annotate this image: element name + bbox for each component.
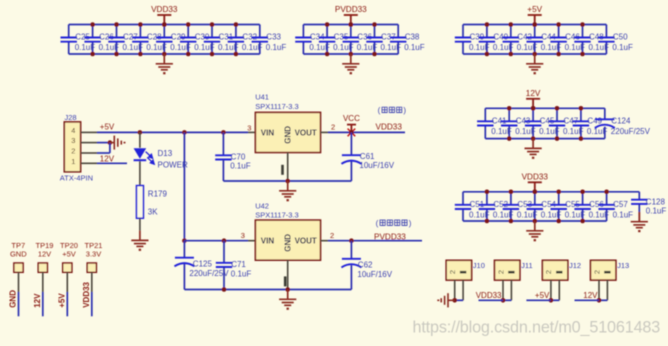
capacitor C28 0.1uF bbox=[139, 25, 141, 38]
junction dots at C42 bbox=[509, 22, 514, 27]
VDD33 bypass bank top rail wire bbox=[69, 24, 260, 26]
svg-text:U41: U41 bbox=[255, 93, 269, 102]
junction dot at C57/top-right corner bbox=[604, 190, 609, 195]
svg-text:0.1uF: 0.1uF bbox=[612, 43, 633, 52]
no-ERC cross at VCC node bbox=[348, 129, 356, 137]
svg-text:+5V: +5V bbox=[535, 291, 550, 300]
svg-text:2: 2 bbox=[544, 270, 553, 274]
svg-text:220uF/25V: 220uF/25V bbox=[611, 127, 651, 136]
U41 VIN pin lead bbox=[248, 131, 255, 133]
12V bypass bank bottom rail wire bbox=[485, 138, 605, 140]
svg-text:C33: C33 bbox=[266, 33, 281, 42]
op-amp U41 body (SPX1117-3.3) bbox=[255, 112, 320, 152]
ground for +5V bypass bank bbox=[526, 54, 543, 73]
svg-text:C38: C38 bbox=[405, 33, 420, 42]
test point TP7 lead bbox=[18, 272, 20, 292]
capacitor C44 0.1uF bbox=[534, 25, 536, 38]
earth ground at J28 (sideways) bbox=[110, 136, 125, 150]
capacitor C124 220uF/25V bbox=[604, 108, 606, 119]
test point TP20 pad bbox=[63, 263, 72, 272]
svg-text:TP21: TP21 bbox=[85, 241, 103, 250]
capacitor C50 0.1uF bbox=[605, 25, 607, 38]
svg-text:4: 4 bbox=[71, 126, 75, 135]
capacitor C33 0.1uF bbox=[259, 25, 261, 38]
svg-text:C124: C124 bbox=[611, 116, 631, 125]
capacitor C25 0.1uF bbox=[68, 25, 70, 38]
junction dots at C27 bbox=[114, 22, 119, 27]
PVDD33 bypass bank bottom rail wire bbox=[303, 53, 398, 55]
wire to net label 12V bbox=[575, 299, 600, 301]
svg-text:VDD33: VDD33 bbox=[522, 173, 549, 182]
U42 GND pin lead bbox=[287, 260, 289, 289]
svg-text:0.1uF: 0.1uF bbox=[266, 43, 287, 52]
svg-text:VDD33: VDD33 bbox=[82, 281, 91, 307]
svg-text:0.1uF: 0.1uF bbox=[404, 43, 425, 52]
J10 pin leads bbox=[454, 280, 456, 300]
svg-text:3: 3 bbox=[71, 136, 75, 145]
capacitor C125 220uF/25V (polarized) bbox=[183, 241, 185, 258]
capacitor C32 0.1uF bbox=[235, 25, 237, 38]
junction dots at C45 bbox=[531, 106, 536, 111]
junction dots at C56 bbox=[580, 190, 585, 195]
J13 pin join wire bbox=[599, 299, 607, 301]
J13 pin 1 number bbox=[604, 271, 610, 274]
J28 pin 3 lead bbox=[81, 142, 97, 144]
capacitor C56 0.1uF bbox=[582, 192, 584, 205]
junction dot J11 bbox=[501, 298, 506, 303]
U41 pin 2 lead bbox=[321, 131, 329, 133]
capacitor C128 0.1uF bbox=[638, 192, 640, 200]
junction dot D13 branch bbox=[138, 130, 143, 135]
capacitor C48 0.1uF bbox=[582, 25, 584, 38]
wire VOUT to PVDD33 bbox=[328, 240, 422, 242]
wire from TP19 bbox=[42, 292, 44, 316]
wire to net label VDD33 bbox=[479, 299, 504, 301]
svg-text:+5V: +5V bbox=[57, 293, 66, 308]
junction dots at C35 bbox=[325, 22, 330, 27]
junction dots at C55 bbox=[556, 190, 561, 195]
svg-text:GND: GND bbox=[284, 126, 293, 144]
svg-text:10uF/16V: 10uF/16V bbox=[359, 161, 394, 170]
junction dot VDD33 stem on VDD33 lower bypass bank top rail bbox=[533, 190, 538, 195]
J12 pin leads bbox=[550, 280, 552, 300]
capacitor C29 0.1uF bbox=[163, 25, 165, 38]
svg-text:3: 3 bbox=[247, 124, 251, 133]
capacitor C62 10uF/16V (polarized) bbox=[350, 241, 352, 259]
J28 pin 4 lead bbox=[81, 131, 97, 133]
junction dot C62 bbox=[349, 238, 354, 243]
VDD33 lower bypass bank bottom rail wire bbox=[463, 220, 607, 222]
svg-text:12V: 12V bbox=[38, 250, 51, 259]
ground below U41 bbox=[279, 181, 296, 200]
U42 VIN pin lead bbox=[248, 240, 255, 242]
ground for PVDD33 bypass bank bbox=[342, 54, 359, 73]
feed wire +5V down to U42 row bbox=[183, 132, 185, 240]
jumper J12 body bbox=[542, 260, 567, 280]
svg-text:GND: GND bbox=[10, 250, 27, 259]
earth ground at J10 (sideways) bbox=[438, 293, 454, 307]
svg-text:J13: J13 bbox=[617, 261, 629, 270]
junction dots at C28 bbox=[138, 22, 143, 27]
svg-text:VIN: VIN bbox=[261, 237, 275, 246]
capacitor C54 0.1uF bbox=[534, 192, 536, 205]
junction dot J13 bbox=[597, 298, 602, 303]
svg-text:+5V: +5V bbox=[62, 250, 76, 259]
junction dot U42 VIN rail bbox=[182, 238, 187, 243]
svg-text:J11: J11 bbox=[521, 261, 533, 270]
wire to net label +5V bbox=[526, 299, 551, 301]
svg-text:(: ( bbox=[378, 106, 381, 115]
junction dots at C43 bbox=[507, 106, 512, 111]
junction dots at C52 bbox=[485, 190, 490, 195]
capacitor C35 0.1uF bbox=[326, 25, 328, 38]
junction dots at C36 bbox=[349, 22, 354, 27]
capacitor C36 0.1uF bbox=[350, 25, 352, 38]
svg-text:GND: GND bbox=[284, 234, 293, 252]
svg-text:TP19: TP19 bbox=[36, 241, 54, 250]
svg-text:J28: J28 bbox=[65, 113, 77, 122]
svg-text:ATX-4PIN: ATX-4PIN bbox=[60, 173, 93, 182]
ground below R179 bbox=[131, 231, 148, 250]
resistor R179 bbox=[137, 186, 144, 219]
svg-text:VOUT: VOUT bbox=[295, 128, 317, 137]
VDD33 lower bypass bank top rail wire bbox=[463, 191, 607, 193]
wire pin3 to junction bbox=[97, 142, 110, 144]
svg-text:https://blog.csdn.net/m0_51061: https://blog.csdn.net/m0_51061483 bbox=[413, 319, 661, 337]
svg-text:C128: C128 bbox=[646, 197, 666, 206]
svg-text:VCC: VCC bbox=[343, 114, 360, 123]
svg-text:TP7: TP7 bbox=[11, 241, 25, 250]
junction dot 12V stem on 12V bypass bank top rail bbox=[531, 106, 536, 111]
capacitor C55 0.1uF bbox=[558, 192, 560, 205]
svg-text:J12: J12 bbox=[569, 261, 581, 270]
capacitor C41 0.1uF bbox=[484, 108, 486, 121]
junction dot C71 top bbox=[222, 238, 227, 243]
capacitor C42 0.1uF bbox=[510, 25, 512, 38]
svg-text:D13: D13 bbox=[158, 149, 173, 158]
J12 pin join wire bbox=[551, 299, 559, 301]
U42 VIN rail wire bbox=[184, 240, 248, 242]
test point TP7 pad bbox=[14, 263, 23, 272]
junction dot VCC node bbox=[349, 130, 354, 135]
junction dots at C30 bbox=[186, 22, 191, 27]
wire extension to C128 bbox=[607, 191, 640, 193]
capacitor C53 0.1uF bbox=[510, 192, 512, 205]
+5V bypass bank top rail wire bbox=[463, 24, 606, 26]
svg-text:C50: C50 bbox=[613, 33, 628, 42]
svg-text:12V: 12V bbox=[583, 291, 598, 300]
capacitor C46 0.1uF bbox=[558, 25, 560, 38]
ground for 12V bypass bank bbox=[525, 139, 542, 158]
capacitor C51 0.1uF bbox=[462, 192, 464, 205]
svg-text:2: 2 bbox=[331, 123, 335, 132]
junction dots at C40 bbox=[485, 22, 490, 27]
U42 pin 2 lead bbox=[321, 240, 329, 242]
wire R179 to ground bbox=[139, 218, 141, 230]
capacitor C31 0.1uF bbox=[211, 25, 213, 38]
jumper J11 body bbox=[495, 260, 520, 280]
junction dot PVDD33 stem on PVDD33 bypass bank top rail bbox=[349, 22, 354, 27]
svg-text:+5V: +5V bbox=[100, 122, 115, 131]
capacitor C40 0.1uF bbox=[486, 25, 488, 38]
VDD33 bypass bank bottom rail wire bbox=[69, 53, 260, 55]
connector J28 body bbox=[64, 122, 80, 172]
wire rail to D13 bbox=[139, 132, 141, 147]
junction dots at C47 bbox=[555, 106, 560, 111]
ground below U42 bbox=[279, 290, 296, 309]
junction dots at C26 bbox=[90, 22, 95, 27]
J10 pin 1 number bbox=[460, 271, 466, 274]
wire D13 to R179 bbox=[139, 161, 141, 185]
svg-text:U42: U42 bbox=[255, 201, 269, 210]
jumper J10 body bbox=[446, 260, 471, 280]
test point TP19 lead bbox=[42, 272, 44, 292]
svg-text:GND: GND bbox=[9, 290, 18, 308]
capacitor C27 0.1uF bbox=[116, 25, 118, 38]
op-amp U42 body (SPX1117-3.3) bbox=[255, 220, 320, 260]
wire from TP21 bbox=[91, 292, 93, 316]
svg-text:2: 2 bbox=[330, 231, 334, 240]
svg-text:3K: 3K bbox=[148, 208, 158, 217]
svg-text:): ) bbox=[403, 106, 406, 115]
+5V rail wire to U41 VIN bbox=[97, 131, 248, 133]
capacitor C37 0.1uF bbox=[374, 25, 376, 38]
svg-text:TP20: TP20 bbox=[60, 241, 78, 250]
wire pin2 to junction bbox=[97, 152, 110, 154]
junction dot +5V stem on +5V bypass bank top rail bbox=[532, 22, 537, 27]
capacitor C38 0.1uF bbox=[397, 25, 399, 38]
J10 pin join wire bbox=[455, 299, 463, 301]
junction dot pin3 bbox=[108, 140, 113, 145]
svg-text:0.1uF: 0.1uF bbox=[646, 207, 667, 216]
PVDD33 bypass bank top rail wire bbox=[303, 24, 398, 26]
capacitor C57 0.1uF bbox=[606, 192, 608, 205]
J11 pin join wire bbox=[503, 299, 511, 301]
junction dot U42 feed bbox=[182, 130, 187, 135]
capacitor C43 0.1uF bbox=[508, 108, 510, 121]
junction dots at C31 bbox=[210, 22, 215, 27]
junction dots at C54 bbox=[533, 190, 538, 195]
capacitor C34 0.1uF bbox=[302, 25, 304, 38]
junction dot J12 bbox=[549, 298, 554, 303]
capacitor C71 0.1uF bbox=[223, 241, 225, 263]
svg-text:PVDD33: PVDD33 bbox=[374, 232, 406, 241]
svg-text:12V: 12V bbox=[100, 154, 115, 163]
J28 pin 2 lead bbox=[81, 152, 97, 154]
svg-text:VDD33: VDD33 bbox=[476, 291, 502, 300]
J28 pin 1 lead bbox=[81, 162, 97, 164]
svg-text:C70: C70 bbox=[231, 153, 246, 162]
capacitor C61 10uF/16V (polarized) bbox=[350, 132, 352, 155]
test point TP20 lead bbox=[66, 272, 68, 292]
svg-text:0.1uF: 0.1uF bbox=[230, 162, 251, 171]
junction dots at C53 bbox=[509, 190, 514, 195]
svg-text:R179: R179 bbox=[148, 190, 168, 199]
capacitor C39 0.1uF bbox=[462, 25, 464, 38]
svg-text:C125: C125 bbox=[193, 259, 213, 268]
svg-text:+5V: +5V bbox=[527, 5, 542, 14]
ground for VDD33 lower bypass bank bbox=[526, 221, 543, 240]
junction dot U41 gnd bbox=[285, 179, 290, 184]
svg-text:0.1uF: 0.1uF bbox=[231, 269, 252, 278]
U41 GND pin lead bbox=[287, 152, 289, 181]
ground for C128 bbox=[638, 212, 640, 222]
svg-text:SPX1117-3.3: SPX1117-3.3 bbox=[255, 211, 299, 220]
test point TP19 pad bbox=[38, 263, 47, 272]
svg-text:VIN: VIN bbox=[261, 128, 275, 137]
junction dot J10 bbox=[452, 298, 457, 303]
svg-text:(: ( bbox=[376, 219, 379, 228]
svg-text:VOUT: VOUT bbox=[295, 237, 317, 246]
test point TP21 pad bbox=[87, 263, 96, 272]
capacitor C70 0.1uF bbox=[222, 132, 224, 155]
svg-text:C71: C71 bbox=[231, 260, 246, 269]
U41 ground rail wire bbox=[223, 180, 351, 182]
capacitor C47 0.1uF bbox=[556, 108, 558, 121]
U42 pin 1 mark bbox=[284, 276, 287, 286]
J12 pin 1 number bbox=[556, 271, 562, 274]
junction dots at C37 bbox=[372, 22, 377, 27]
ground for VDD33 bypass bank bbox=[156, 54, 173, 73]
LED D13 bbox=[134, 148, 147, 159]
svg-text:POWER: POWER bbox=[158, 160, 188, 169]
svg-text:12V: 12V bbox=[526, 89, 541, 98]
12V bypass bank top rail wire bbox=[485, 107, 605, 109]
capacitor C49 0.1uF bbox=[580, 108, 582, 121]
capacitor C26 0.1uF bbox=[92, 25, 94, 38]
12V stub wire bbox=[97, 162, 127, 164]
capacitor C52 0.1uF bbox=[486, 192, 488, 205]
svg-text:C62: C62 bbox=[358, 261, 373, 270]
svg-text:2: 2 bbox=[592, 270, 601, 274]
junction dot C71 bottom bbox=[222, 287, 227, 292]
J13 pin leads bbox=[598, 280, 600, 300]
jumper J13 body bbox=[591, 260, 616, 280]
wire VOUT to VDD33 bbox=[328, 131, 405, 133]
svg-text:SPX1117-3.3: SPX1117-3.3 bbox=[255, 102, 299, 111]
junction dot U42 gnd bbox=[285, 287, 290, 292]
wire from TP7 bbox=[18, 292, 20, 316]
svg-text:2: 2 bbox=[448, 270, 457, 274]
+5V bypass bank bottom rail wire bbox=[463, 53, 606, 55]
svg-text:3: 3 bbox=[241, 231, 245, 240]
svg-text:J10: J10 bbox=[473, 261, 485, 270]
svg-text:C61: C61 bbox=[360, 152, 375, 161]
J11 pin 1 number bbox=[508, 271, 514, 274]
svg-text:12V: 12V bbox=[33, 293, 42, 308]
svg-text:1: 1 bbox=[71, 157, 75, 166]
junction dot VDD33 stem on VDD33 bypass bank top rail bbox=[162, 22, 167, 27]
junction dot C70 bbox=[221, 130, 226, 135]
junction dots at C49 bbox=[579, 106, 584, 111]
svg-text:10uF/16V: 10uF/16V bbox=[357, 270, 392, 279]
test point TP21 lead bbox=[91, 272, 93, 292]
wire from TP20 bbox=[66, 292, 68, 316]
J11 pin leads bbox=[502, 280, 504, 300]
U41 pin 1 mark bbox=[281, 165, 284, 175]
svg-text:VDD33: VDD33 bbox=[151, 5, 178, 14]
svg-text:PVDD33: PVDD33 bbox=[335, 5, 367, 14]
svg-text:2: 2 bbox=[496, 270, 505, 274]
svg-text:C49: C49 bbox=[587, 116, 602, 125]
junction dots at C44 bbox=[532, 22, 537, 27]
svg-text:VDD33: VDD33 bbox=[376, 122, 403, 131]
svg-text:): ) bbox=[409, 219, 412, 228]
svg-text:C57: C57 bbox=[613, 200, 628, 209]
svg-text:0.1uF: 0.1uF bbox=[613, 211, 634, 220]
capacitor C30 0.1uF bbox=[187, 25, 189, 38]
capacitor C45 0.1uF bbox=[532, 108, 534, 121]
wire pin3-pin2 vertical bbox=[109, 143, 111, 153]
U42 ground rail wire bbox=[184, 289, 351, 291]
svg-text:3.3V: 3.3V bbox=[86, 250, 101, 259]
junction dots at C32 bbox=[234, 22, 239, 27]
junction dots at C48 bbox=[580, 22, 585, 27]
junction dots at C46 bbox=[556, 22, 561, 27]
junction dots at C29 bbox=[162, 22, 167, 27]
svg-text:2: 2 bbox=[71, 147, 75, 156]
